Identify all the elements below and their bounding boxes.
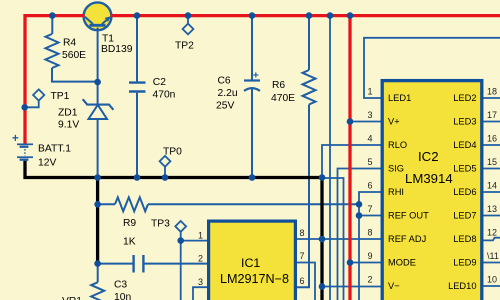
wire: IC1 pin 7 to bottom edge: [297, 263, 315, 300]
test point TP0: [160, 156, 171, 178]
node: junction R9/RHI drop: [356, 201, 363, 208]
node: junction on rail at R6: [306, 12, 313, 19]
svg-text:IC2: IC2: [418, 149, 439, 164]
node: junction ground at C2: [134, 174, 141, 181]
svg-text:LM2917N−8: LM2917N−8: [220, 272, 289, 286]
svg-text:VR1: VR1: [62, 296, 82, 300]
svg-text:LED10: LED10: [448, 281, 476, 291]
node: junction ground at TP0: [162, 174, 169, 181]
battery BATT.1 12V: [12, 133, 33, 161]
svg-text:V−: V−: [388, 281, 400, 291]
svg-text:16: 16: [487, 133, 497, 143]
test point TP2: [183, 16, 194, 35]
svg-text:7: 7: [300, 251, 305, 261]
transistor T1 BD139: [84, 2, 112, 30]
svg-text:MODE: MODE: [388, 257, 416, 267]
wire: IC2 LED7 stub to right edge: [483, 215, 500, 217]
node: junction TP1 on red feed: [21, 104, 28, 111]
node: junction R9 left: [94, 201, 101, 208]
svg-text:12V: 12V: [38, 158, 56, 169]
svg-text:LED5: LED5: [453, 163, 476, 173]
wire: red rail tap to IC2 MODE (pin 9 row): [350, 262, 382, 264]
svg-text:\11: \11: [487, 251, 499, 261]
wire: black vertical ground drop at x=322: [320, 178, 323, 300]
svg-text:TP0: TP0: [163, 147, 182, 158]
svg-text:R6: R6: [272, 80, 285, 91]
svg-text:LED7: LED7: [453, 210, 476, 220]
capacitor C3 10n: [98, 255, 207, 273]
wire: red vertical from rail to V+ / MODE (x=350): [348, 16, 351, 300]
resistor R9 1K: [98, 197, 359, 211]
svg-text:LM3914: LM3914: [405, 171, 453, 186]
node: junction on rail at C6: [249, 12, 256, 19]
svg-text:LED4: LED4: [453, 140, 476, 150]
svg-text:10n: 10n: [114, 292, 131, 300]
svg-text:+: +: [253, 70, 259, 82]
svg-text:TP1: TP1: [51, 91, 70, 102]
resistor R4 560E: [46, 16, 98, 82]
svg-text:17: 17: [487, 110, 497, 120]
svg-text:C6: C6: [218, 76, 231, 87]
wire: ground junction up to IC2 RLO (pin 4 row): [322, 145, 382, 178]
wire: IC2 LED9 stub to right edge: [483, 262, 500, 264]
node: junction red/V+ row: [347, 118, 354, 125]
svg-text:+: +: [12, 133, 19, 145]
svg-text:REF OUT: REF OUT: [388, 210, 429, 220]
resistor VR1 (cut off at bottom): [91, 264, 104, 300]
svg-text:15: 15: [487, 157, 497, 167]
node: junction on rail at TP2: [185, 12, 192, 19]
node: junction ground at x=97.5: [94, 174, 101, 181]
capacitor C6 2.2u 25V electrolytic: [244, 16, 260, 178]
wire: ground to IC2 V- (pin 2 row): [322, 286, 382, 288]
svg-text:25V: 25V: [216, 101, 234, 112]
svg-text:C2: C2: [153, 77, 166, 88]
svg-text:14: 14: [487, 180, 497, 190]
svg-text:10: 10: [487, 274, 497, 284]
node: junction on rail at red drop: [347, 12, 354, 19]
test point TP1: [25, 89, 45, 107]
wire: black vertical at x=97.5 (zener/R9/C3 node): [96, 178, 99, 264]
svg-text:ZD1: ZD1: [58, 107, 78, 118]
svg-text:9.1V: 9.1V: [58, 120, 79, 131]
svg-text:BATT.1: BATT.1: [38, 143, 71, 154]
svg-text:7: 7: [367, 204, 372, 214]
wire: IC2 RHI (pin 6) down to bottom edge: [359, 192, 382, 300]
wire: IC2 LED6 stub to right edge: [483, 191, 500, 193]
test point TP3: [175, 221, 186, 300]
wire: IC1 pin 8 to IC2 REF ADJ (pin 8 row): [297, 238, 382, 240]
svg-text:8: 8: [300, 228, 305, 238]
svg-text:4: 4: [367, 133, 372, 143]
node: junction on rail at x=330: [327, 12, 334, 19]
wire: IC2 LED10 stub to right edge: [483, 285, 500, 287]
capacitor C2 470n: [129, 16, 146, 178]
svg-text:12: 12: [487, 227, 497, 237]
svg-text:1K: 1K: [123, 237, 136, 248]
node: junction C3 node: [94, 260, 101, 267]
svg-text:R4: R4: [63, 38, 76, 49]
zener diode ZD1 9.1V: [83, 82, 114, 178]
svg-text:470E: 470E: [271, 93, 295, 104]
wire: IC2 REF OUT (pin 7) stub: [359, 215, 382, 217]
node: junction black/V- row: [319, 283, 326, 290]
svg-text:2: 2: [198, 254, 203, 264]
resistor R6 470E: [297, 16, 316, 288]
svg-text:LED1: LED1: [388, 93, 411, 103]
svg-text:RLO: RLO: [388, 140, 407, 150]
svg-text:TP3: TP3: [151, 219, 170, 230]
svg-text:R9: R9: [123, 218, 136, 229]
svg-text:LED8: LED8: [453, 234, 476, 244]
wire: rail drop at x=330 to bottom edge: [329, 16, 331, 300]
svg-text:T1: T1: [102, 33, 114, 44]
svg-text:LED6: LED6: [453, 187, 476, 197]
wire: IC2 LED3 stub to right edge: [483, 121, 500, 123]
wire: IC2 SIG (pin 5) down to bottom edge: [338, 169, 383, 300]
svg-text:C3: C3: [114, 280, 127, 291]
node: junction red/MODE row: [347, 259, 354, 266]
svg-text:1: 1: [367, 86, 372, 96]
node: junction REF OUT stub: [356, 212, 363, 219]
wire: T1 base lead down: [97, 28, 99, 83]
svg-text:2: 2: [367, 274, 372, 284]
node: junction on rail at C2: [134, 12, 141, 19]
wire: ground junction continuation to x=343 drop: [322, 178, 344, 300]
wire: IC1 pin 3 from bottom edge: [193, 287, 207, 300]
svg-text:LED9: LED9: [453, 257, 476, 267]
svg-text:2.2u: 2.2u: [218, 88, 238, 99]
node: junction ground corner x=322: [319, 174, 326, 181]
svg-text:3: 3: [198, 277, 203, 287]
svg-text:IC1: IC1: [241, 256, 260, 270]
node: junction on rail at R4: [49, 12, 56, 19]
node: junction TP3 node: [177, 237, 184, 244]
svg-text:REF ADJ: REF ADJ: [388, 234, 426, 244]
svg-text:9: 9: [367, 251, 372, 261]
svg-text:TP2: TP2: [175, 41, 194, 52]
svg-text:V+: V+: [388, 116, 400, 126]
LED driver IC2 LM3914: [382, 81, 482, 300]
node: junction R4/ZD1/T1 base: [94, 79, 101, 86]
wire: IC2 LED1 (pin 1) loop to right edge: [364, 38, 500, 98]
wire: IC2 LED4 stub to right edge: [483, 144, 500, 146]
wire: +12V supply rail top: [25, 16, 500, 144]
svg-text:SIG: SIG: [388, 163, 404, 173]
node: junction ground at C6: [249, 174, 256, 181]
wire: IC2 LED5 stub to right edge: [483, 168, 500, 170]
svg-text:LED2: LED2: [453, 93, 476, 103]
svg-text:BD139: BD139: [101, 44, 133, 55]
node: junction black/pin8 row: [319, 236, 326, 243]
svg-text:8: 8: [367, 227, 372, 237]
wire: battery minus to ground bus: [25, 161, 322, 178]
svg-text:1: 1: [198, 231, 203, 241]
wire: IC2 LED8 stub to right edge: [483, 238, 500, 241]
op-amp/F-V converter IC1 LM2917N-8: [209, 221, 296, 300]
svg-text:6: 6: [300, 276, 305, 286]
svg-text:5: 5: [367, 157, 372, 167]
svg-text:LED3: LED3: [453, 116, 476, 126]
svg-text:560E: 560E: [62, 50, 86, 61]
svg-text:18: 18: [487, 86, 497, 96]
wire: red rail tap to IC2 V+ (pin 3 row): [350, 121, 382, 123]
svg-text:470n: 470n: [153, 90, 176, 101]
svg-text:3: 3: [367, 110, 372, 120]
svg-text:RHI: RHI: [388, 187, 404, 197]
svg-text:6: 6: [367, 180, 372, 190]
wire: IC2 LED2 stub to right edge: [483, 97, 500, 99]
wire: TP3 node to IC1 pin 1: [181, 240, 207, 242]
svg-text:13: 13: [487, 204, 497, 214]
